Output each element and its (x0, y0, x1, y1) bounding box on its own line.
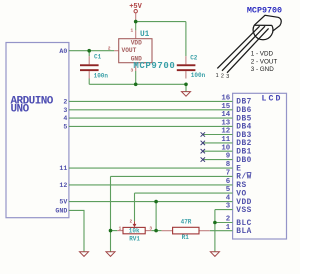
svg-text:7: 7 (226, 170, 230, 178)
svg-text:BLC: BLC (236, 220, 252, 228)
svg-text:VDD: VDD (131, 40, 142, 47)
svg-text:DB1: DB1 (236, 149, 252, 157)
svg-text:1: 1 (119, 226, 122, 231)
svg-text:12: 12 (221, 128, 230, 136)
svg-text:16: 16 (221, 95, 230, 103)
svg-text:47R: 47R (181, 219, 192, 226)
svg-text:4: 4 (63, 115, 67, 122)
svg-text:DB2: DB2 (236, 140, 252, 148)
svg-text:1: 1 (131, 28, 134, 33)
svg-text:1: 1 (216, 73, 219, 79)
svg-text:100n: 100n (191, 72, 206, 79)
svg-text:2: 2 (63, 99, 67, 106)
svg-text:RS: RS (236, 182, 246, 190)
svg-text:VO: VO (236, 190, 246, 198)
svg-text:C1: C1 (94, 54, 102, 61)
svg-text:2: 2 (108, 46, 111, 51)
svg-text:BLA: BLA (236, 228, 252, 236)
svg-text:2: 2 (130, 220, 133, 225)
svg-text:3: 3 (226, 74, 229, 80)
svg-text:13: 13 (221, 120, 230, 128)
svg-text:11: 11 (221, 136, 230, 144)
svg-text:MCP9700: MCP9700 (133, 61, 175, 71)
svg-text:UNO: UNO (11, 104, 30, 116)
svg-text:14: 14 (221, 111, 230, 119)
svg-text:DB3: DB3 (236, 132, 252, 140)
svg-text:MCP9700: MCP9700 (247, 5, 282, 15)
svg-text:12: 12 (59, 182, 67, 189)
svg-text:9: 9 (226, 153, 230, 161)
svg-text:10: 10 (221, 144, 230, 152)
svg-text:15: 15 (221, 103, 230, 111)
svg-text:R1: R1 (182, 234, 190, 241)
svg-text:10k: 10k (129, 228, 140, 235)
svg-text:DB5: DB5 (236, 115, 252, 123)
svg-text:VOUT: VOUT (122, 47, 137, 54)
svg-text:2: 2 (226, 216, 230, 224)
svg-text:5V: 5V (59, 199, 67, 206)
svg-text:VSS: VSS (236, 207, 252, 215)
svg-text:8: 8 (226, 161, 231, 169)
svg-text:DB0: DB0 (236, 157, 252, 165)
svg-text:1 - VDD: 1 - VDD (251, 51, 274, 58)
svg-text:3: 3 (63, 107, 67, 114)
svg-text:2 - VOUT: 2 - VOUT (251, 58, 278, 65)
svg-text:DB6: DB6 (236, 107, 252, 115)
svg-text:3 - GND: 3 - GND (251, 66, 275, 73)
svg-text:3: 3 (149, 226, 152, 231)
svg-text:5: 5 (226, 186, 231, 194)
svg-text:E: E (236, 165, 241, 173)
svg-text:100n: 100n (94, 72, 109, 79)
svg-text:A0: A0 (59, 48, 67, 55)
svg-text:RV1: RV1 (129, 236, 140, 243)
svg-text:C2: C2 (190, 55, 198, 62)
svg-text:1: 1 (226, 224, 231, 232)
svg-text:3: 3 (226, 203, 231, 211)
svg-text:DB7: DB7 (236, 99, 252, 107)
svg-text:DB4: DB4 (236, 124, 252, 132)
svg-text:+5V: +5V (129, 3, 142, 11)
svg-text:U1: U1 (140, 31, 150, 39)
svg-text:LCD: LCD (262, 95, 283, 104)
svg-text:VDD: VDD (236, 199, 252, 207)
svg-text:2: 2 (221, 74, 224, 80)
svg-text:4: 4 (226, 195, 231, 203)
svg-text:5: 5 (63, 124, 67, 131)
svg-text:11: 11 (59, 165, 67, 172)
svg-text:GND: GND (55, 208, 67, 215)
svg-text:6: 6 (226, 178, 231, 186)
svg-text:R/W: R/W (236, 174, 252, 182)
